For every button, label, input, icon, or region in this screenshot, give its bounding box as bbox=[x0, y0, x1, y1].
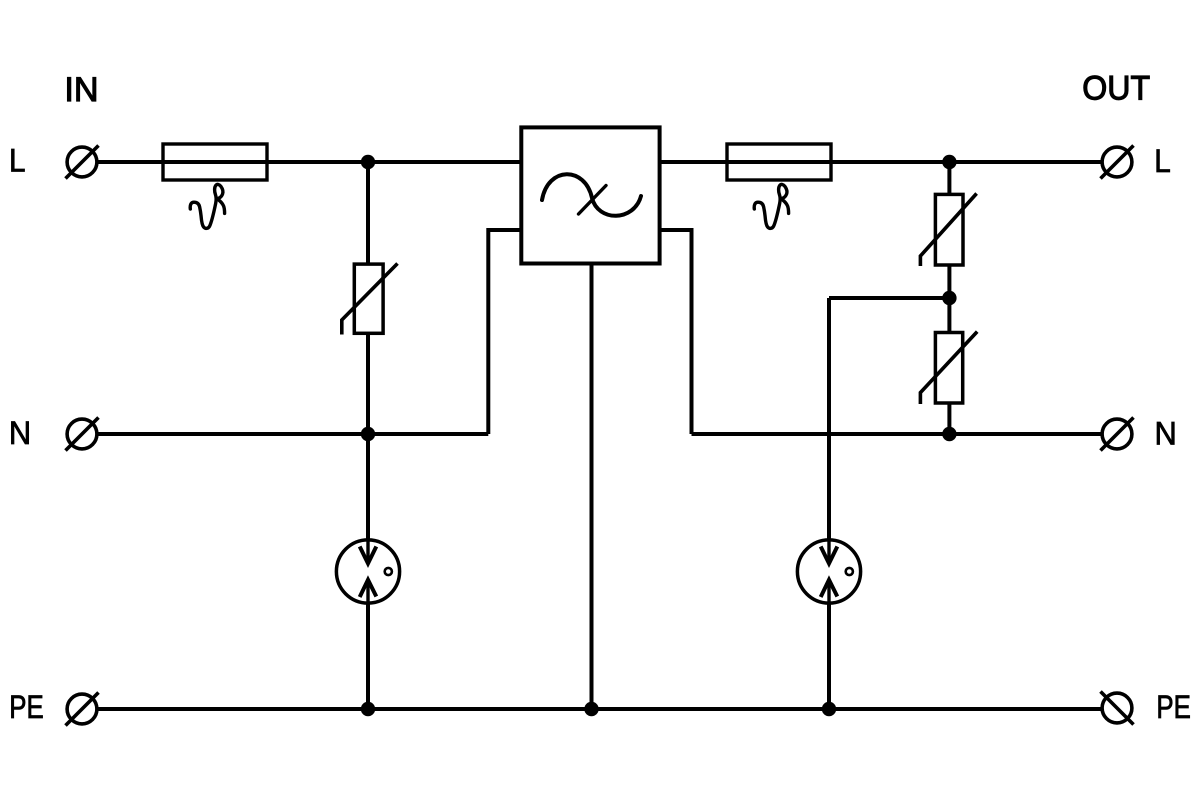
svg-text:N: N bbox=[9, 414, 31, 451]
svg-text:L: L bbox=[1154, 143, 1171, 179]
svg-text:L: L bbox=[9, 142, 26, 178]
svg-text:PE: PE bbox=[9, 690, 43, 725]
svg-text:OUT: OUT bbox=[1082, 70, 1150, 108]
svg-text:PE: PE bbox=[1156, 690, 1190, 725]
svg-text:N: N bbox=[1155, 415, 1177, 452]
svg-text:IN: IN bbox=[64, 71, 98, 109]
